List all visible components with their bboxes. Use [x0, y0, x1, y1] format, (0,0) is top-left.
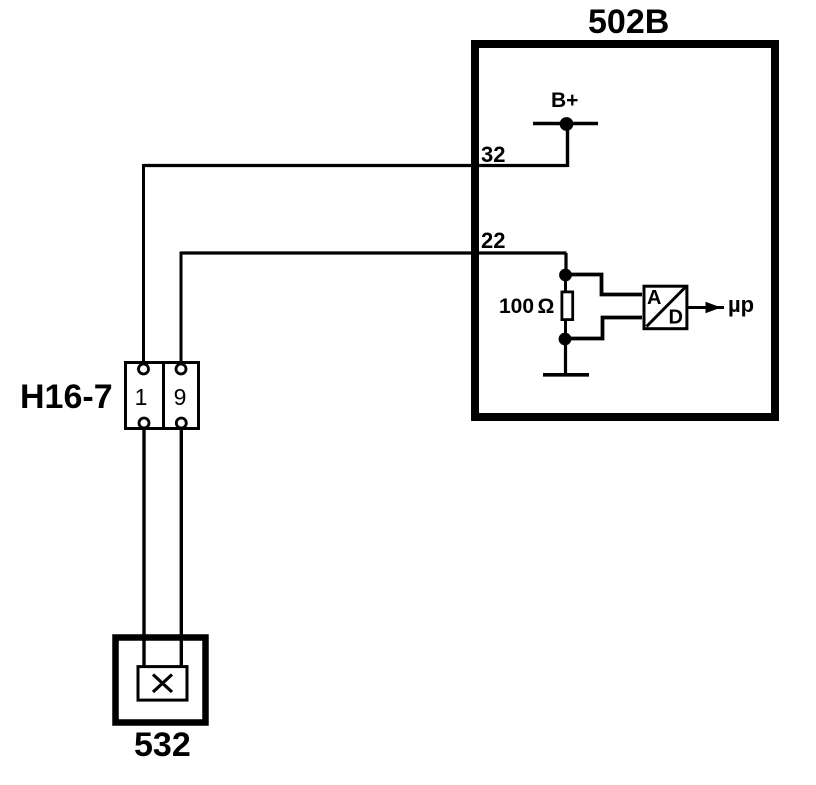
- arrow head to microprocessor: [706, 302, 722, 313]
- terminal circle pin9 top: [176, 364, 186, 374]
- node A (top of resistor): [559, 269, 572, 282]
- svg-text:µp: µp: [728, 292, 754, 317]
- svg-text:A: A: [647, 287, 661, 309]
- wire pin32 vertical (to connector pin 1): [142, 164, 145, 365]
- wire pin9 inside lamp box: [180, 640, 183, 667]
- svg-text:1: 1: [135, 384, 148, 410]
- resistor R1 body: [562, 292, 573, 320]
- terminal circle pin1 top: [139, 364, 149, 374]
- B+ supply bar: [533, 122, 598, 125]
- wire node A to resistor: [564, 275, 567, 293]
- ground: [543, 373, 589, 377]
- node B+ junction dot: [560, 117, 574, 131]
- lamp unit box (532): [116, 638, 206, 723]
- wire resistor to node B: [564, 319, 567, 339]
- svg-text:9: 9: [174, 384, 187, 410]
- wire 22 to resistor riser: [564, 253, 567, 275]
- svg-text:532: 532: [134, 726, 191, 764]
- connector J1 (H16-7) box: [126, 363, 199, 429]
- bulb X symbol: [153, 675, 172, 693]
- wire pin22 horizontal: [181, 251, 567, 254]
- svg-text:100: 100: [499, 295, 534, 318]
- wire node B to A/D lower input: [565, 318, 642, 339]
- ECU box U1 (502B): [475, 44, 775, 417]
- node B (bottom of resistor): [559, 333, 572, 346]
- svg-text:32: 32: [481, 142, 505, 167]
- wire pin22 vertical (to connector pin 9): [180, 252, 183, 366]
- connector divider: [162, 361, 165, 430]
- wire A/D output: [688, 306, 724, 309]
- A/D diagonal: [647, 287, 687, 327]
- wire pin1 inside lamp box: [142, 640, 145, 667]
- wire pin1 to lamp: [142, 429, 145, 667]
- wire node B to ground: [564, 339, 567, 375]
- svg-text:22: 22: [481, 228, 505, 253]
- bulb element box: [138, 667, 187, 701]
- svg-text:B+: B+: [551, 89, 578, 112]
- svg-text:502B: 502B: [588, 3, 669, 41]
- terminal circle pin9 bottom: [176, 418, 186, 428]
- terminal circle pin1 bottom: [139, 418, 149, 428]
- svg-text:D: D: [669, 307, 683, 329]
- A/D converter U2 box: [644, 286, 687, 329]
- wire pin9 to lamp: [180, 429, 183, 667]
- wire B+ riser: [566, 124, 569, 167]
- svg-text:Ω: Ω: [538, 295, 555, 318]
- wire pin32 horizontal: [144, 164, 568, 167]
- value label 100 ohm: [499, 295, 554, 318]
- wire node A to A/D upper input: [566, 275, 643, 295]
- svg-text:H16-7: H16-7: [20, 378, 113, 416]
